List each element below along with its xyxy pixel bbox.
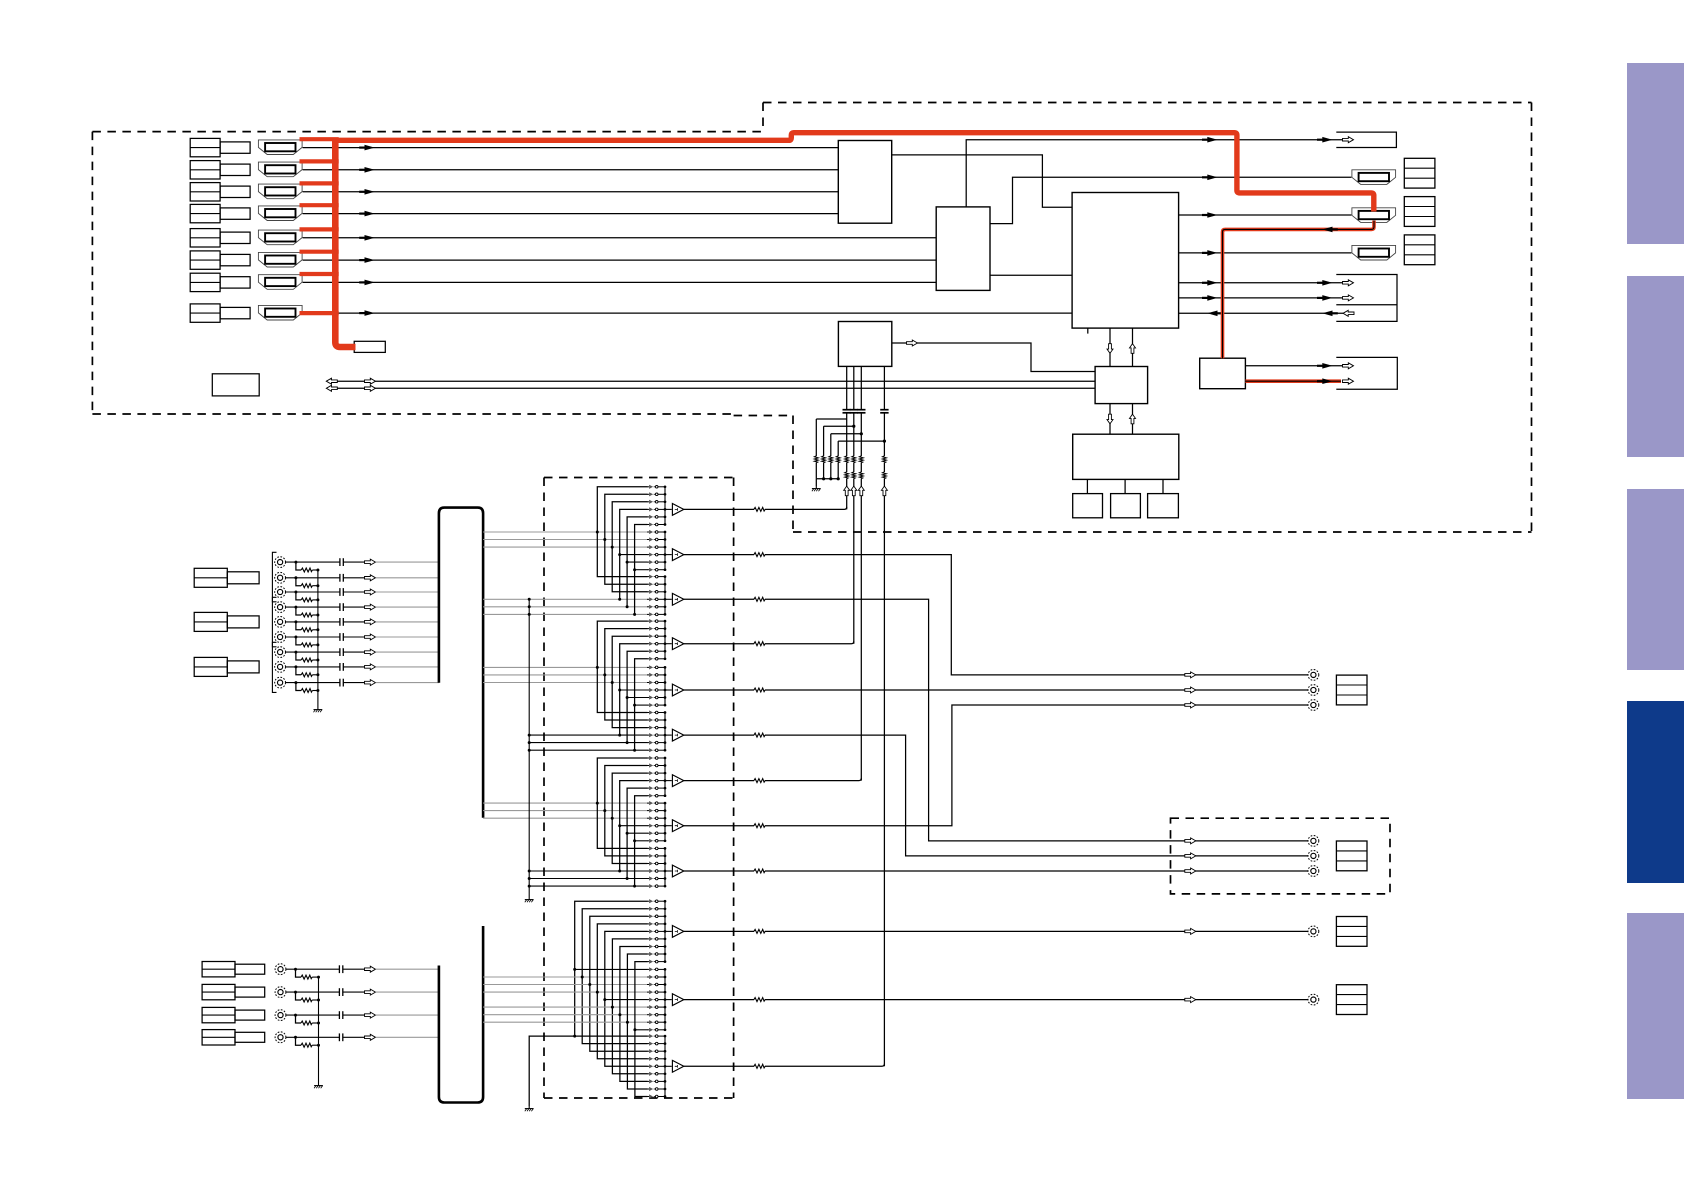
hollow arrow output ch10 [1185, 928, 1196, 934]
selector bottom ch1 bus to buffer [665, 930, 672, 932]
tap wire from pull network 2 [824, 425, 854, 427]
ground symbol for pull network [812, 486, 821, 491]
connector shell rect for HDMI input 5 [220, 232, 250, 243]
junction dot shield bus [528, 605, 531, 608]
wire capacitor to arrow B4 [343, 1036, 365, 1038]
memory block U8 [1111, 494, 1141, 518]
memory block U7 [1073, 494, 1103, 518]
RCA output jack O3 [1308, 700, 1319, 711]
selector contact group1 ch3 pos6 [647, 612, 665, 616]
selector contact group3 ch2 pos5 [647, 831, 665, 835]
junction dot group3 L6 [633, 885, 636, 888]
IC block U10 transmitter [1200, 358, 1246, 389]
selector contact bottom ch2 pos1 [647, 967, 665, 971]
selector contact bottom ch3 pos1 [647, 1034, 665, 1038]
junction dot ground bus A1 [316, 569, 319, 572]
output resistor ch2 [754, 552, 765, 557]
bidirectional control wire [331, 380, 1096, 382]
selector link wire bottom col8 [627, 954, 647, 1089]
junction dot at RCA B3 [294, 1014, 297, 1017]
gray analog lead A6 into cable [376, 636, 439, 638]
tap wire from pull network 1 [816, 418, 846, 420]
wire shunt resistor to ground bus A4 [312, 614, 318, 616]
hollow arrow on analog input A3 [365, 589, 376, 595]
HDMI input connector J5 [258, 230, 302, 245]
junction dot shield bus [528, 613, 531, 616]
selector contact bottom ch3 pos2 [647, 1042, 665, 1046]
group bracket for analog inputs 3 [272, 642, 276, 692]
selector contact group1 ch1 pos2 [647, 492, 665, 496]
buffer output wire ch4 to DAC return [684, 641, 854, 644]
selector group2 ch1 bus to buffer [665, 643, 672, 645]
output resistor ch3 [754, 597, 765, 602]
RCA input jack A8 [275, 662, 286, 673]
series resistor R3a [859, 456, 864, 463]
selector contact group2 ch2 pos5 [647, 695, 665, 699]
selector contact group3 ch1 pos5 [647, 786, 665, 790]
buffer amp bottom ch1 [672, 926, 683, 938]
junction dot bottom L2 [581, 976, 584, 979]
shunt resistor RA8 [301, 672, 312, 677]
junction dot group1 L1 [596, 531, 599, 534]
wire U3 to HDMI out 2 [1179, 214, 1352, 216]
selector group3 ch1 bus to buffer [665, 780, 672, 782]
connector shell rect for HDMI input 1 [220, 142, 250, 153]
coupling capacitor CA9 [340, 679, 343, 687]
output resistor ch5 [754, 687, 765, 692]
selector group3 ch3 output bus [664, 848, 666, 886]
hollow arrow output ch3 [1185, 838, 1196, 844]
junction dot ground bus A2 [316, 584, 319, 587]
shunt resistor RA5 [301, 627, 312, 632]
selector contact bottom ch2 pos2 [647, 975, 665, 979]
selector contact bottom ch1 pos3 [647, 914, 665, 918]
selector contact group3 ch1 pos4 [647, 779, 665, 783]
selector bottom ch3 output bus [664, 1036, 666, 1096]
selector contact group1 ch3 pos1 [647, 575, 665, 579]
junction dot ground bus B3 [317, 1022, 320, 1025]
selector contact group3 ch1 pos2 [647, 763, 665, 767]
wire shunt resistor to ground bus A3 [312, 599, 318, 601]
junction dot link group2 col5 [626, 696, 629, 699]
wire U3 to control connector line 2 [1179, 297, 1343, 299]
arrow on HDMI input wire 5 [359, 235, 375, 241]
analog bus line group2 L6 [529, 749, 647, 751]
HDMI output connector OUT2 [1352, 208, 1396, 223]
selector link stub bottom row9 [635, 1029, 648, 1031]
buffer amp group1 ch3 [672, 593, 683, 605]
arrow on HDMI input wire 2 [359, 167, 375, 173]
selector contact group1 ch1 pos1 [647, 485, 665, 489]
dashed enclosure: HDMI input board bottom edge [92, 413, 733, 415]
pull resistor chain 1 vertical [815, 419, 817, 479]
analog bus line group2 L1 (gray) [483, 666, 647, 668]
selector group1 ch2 bus to buffer [665, 554, 672, 556]
connector pin-stack for HDMI input 1 [190, 138, 220, 156]
bus U3 to U5 down line [1109, 328, 1111, 366]
coupling capacitor CA4 [340, 603, 343, 611]
audio line 2 continues [853, 413, 855, 644]
selector contact bottom ch1 pos6 [647, 937, 665, 941]
RCA input jack B1 [275, 964, 286, 975]
buffer amp group1 ch2 [672, 549, 683, 561]
up arrow on audio line 1 [844, 486, 850, 496]
junction dot bottom L8 [626, 1021, 629, 1024]
selector contact bottom ch2 pos7 [647, 1013, 665, 1017]
pull resistor chain 3 vertical [830, 434, 832, 479]
buffer output wire ch3 to output jack [684, 599, 1308, 841]
connector frame CN system [1336, 357, 1397, 389]
junction dot link group1 col4 [618, 553, 621, 556]
pin stack for subwoofer out 1 [1336, 917, 1367, 947]
output resistor ch6 [754, 733, 765, 738]
coupling capacitor C3 [857, 410, 865, 413]
wire RCA A8 to coupling [286, 666, 340, 668]
junction dot group2 L4 [618, 734, 621, 737]
wire capacitor to arrow A9 [343, 682, 364, 684]
RCA input jack A4 [275, 602, 286, 613]
selector contact group2 ch3 pos3 [647, 726, 665, 730]
wire capacitor to arrow A4 [343, 606, 364, 608]
selector contact group3 ch3 pos4 [647, 869, 665, 873]
down arrow U3-U5 [1107, 344, 1113, 354]
buffer amp bottom ch2 [672, 994, 683, 1006]
shield bus vertical (upper) [528, 599, 530, 897]
selector contact group1 ch2 pos5 [647, 560, 665, 564]
analog bus line group2 L3 (gray) [483, 682, 647, 684]
RCA input jack A1 [275, 557, 286, 568]
analog bus line group2 L2 (gray) [483, 674, 647, 676]
selector contact group3 ch1 pos1 [647, 756, 665, 760]
selector contact group3 ch2 pos3 [647, 816, 665, 820]
analog bus line bottom L7 (gray) [483, 1014, 647, 1016]
IC block U5 DSP [1095, 367, 1148, 404]
selector link wire group1 col1 [597, 487, 647, 577]
selector contact group3 ch3 pos1 [647, 846, 665, 850]
RCA input jack A2 [275, 572, 286, 583]
black core of thin red return cable [1223, 221, 1375, 359]
wire U6 to memory U7 [1086, 479, 1088, 493]
connector pin-stack for HDMI input 4 [190, 204, 220, 222]
group bracket for analog inputs 1 [272, 552, 276, 602]
analog bus line group3 L2 (gray) [483, 810, 647, 812]
selector bottom ch3 bus to buffer [665, 1065, 672, 1067]
pull resistor chain 4 vertical [837, 441, 839, 479]
shunt branch of RCA B3 [296, 1015, 302, 1023]
selector group2 ch3 bus to buffer [665, 734, 672, 736]
wire U2 top to ARC output [966, 140, 1343, 207]
dashed enclosure: main digital board left edge [762, 103, 764, 132]
junction dot group3 L4 [618, 870, 621, 873]
junction dot bottom L6 [611, 1006, 614, 1009]
selector contact group3 ch3 pos5 [647, 876, 665, 880]
junction dot on shield bus for group2 L6 [528, 749, 531, 752]
junction dot ground bus A5 [316, 628, 319, 631]
selector contact bottom ch1 pos4 [647, 922, 665, 926]
selector contact group3 ch1 pos6 [647, 794, 665, 798]
black core of red U10 cable [1245, 380, 1341, 382]
selector link stub bottom row1 [575, 968, 648, 970]
connector pin-stack for HDMI input 6 [190, 251, 220, 269]
hollow arrow output ch8 [1185, 702, 1196, 708]
dashed enclosure: main digital board right edge [1531, 103, 1533, 533]
shunt branch of RCA A9 [296, 683, 301, 691]
junction dot group2 L3 [611, 681, 614, 684]
wire shunt resistor to ground bus A6 [312, 644, 318, 646]
arrow on thin red return cable [1322, 227, 1338, 233]
stub pin below U3 [1087, 328, 1089, 334]
wire RCA A2 to coupling [286, 577, 340, 579]
HDMI output connector OUT3 [1352, 245, 1396, 260]
analog bus line bottom L4 (gray) [483, 991, 647, 993]
connector shell rect for HDMI input 3 [220, 186, 250, 197]
selector link stub bottom row5 [605, 999, 648, 1001]
selector contact group1 ch2 pos6 [647, 568, 665, 572]
series resistor R2a [851, 456, 856, 463]
wire capacitor to arrow B1 [343, 968, 365, 970]
selector link stub group3 col6 [635, 840, 648, 842]
selector contact group1 ch1 pos4 [647, 507, 665, 511]
wire shunt resistor to ground bus B3 [312, 1022, 318, 1024]
junction dot shield bus [528, 598, 531, 601]
dashed enclosure: HDMI input board (top-left) top edge [92, 131, 763, 133]
junction dot group3 L1 [596, 802, 599, 805]
junction dot on shield bus for group2 L5 [528, 741, 531, 744]
buffer output wire ch2 to output jack [684, 555, 1308, 675]
ground symbol shield bus upper [525, 897, 534, 902]
connector pin-stack for HDMI input 5 [190, 229, 220, 247]
junction dot at RCA A1 [294, 561, 297, 564]
connector shell rect for HDMI input 8 [220, 307, 250, 318]
audio line 4 continues [883, 413, 885, 1067]
hollow arrow on analog input A4 [365, 604, 376, 610]
pin stack for HDMI out 1 [1404, 158, 1435, 188]
red stub wire from HDMI input 5 [300, 227, 339, 231]
junction dot link group1 col6 [633, 568, 636, 571]
arrow on ARC wire near connector [1317, 137, 1333, 143]
shunt resistor RB2 [301, 997, 312, 1002]
junction dot group2 L2 [603, 673, 606, 676]
selector contact bottom ch1 pos5 [647, 929, 665, 933]
navigation tab 5 [1627, 913, 1684, 1099]
selector contact group2 ch1 pos6 [647, 657, 665, 661]
selector contact group3 ch2 pos4 [647, 824, 665, 828]
wire capacitor to arrow A5 [343, 621, 364, 623]
hollow arrow on ARC wire at connector [1343, 137, 1354, 143]
selector contact group2 ch2 pos4 [647, 688, 665, 692]
RCA input jack A3 [275, 587, 286, 598]
red stub wire from HDMI input 2 [300, 159, 339, 163]
buffer amp group2 ch1 [672, 638, 683, 650]
junction dot ground bus B2 [317, 999, 320, 1002]
RCA input jack B2 [275, 987, 286, 998]
navigation tab 1 [1627, 63, 1684, 244]
buffer output wire ch1 to DAC return [684, 507, 847, 510]
wire HDMI input 7 to digital block [303, 281, 937, 283]
HDMI input connector J6 [258, 252, 302, 267]
selector contact bottom ch1 pos2 [647, 907, 665, 911]
junction dot on audio line 3 [860, 432, 863, 435]
buffer output wire ch8 to output jack [684, 705, 1308, 826]
coupling capacitor CB1 [339, 965, 342, 973]
red HDMI video bus trunk wire [332, 133, 1374, 212]
hollow arrow on analog input A1 [365, 559, 376, 565]
selector contact bottom ch1 pos7 [647, 944, 665, 948]
bus U5 to U6 down line [1109, 404, 1111, 435]
wire capacitor to arrow A2 [343, 577, 364, 579]
selector link wire group2 col6 [635, 659, 648, 750]
shield bus link (lower) [529, 1036, 575, 1106]
dashed enclosure: input selector board bottom edge [544, 1097, 734, 1099]
wire RCA A3 to coupling [286, 591, 340, 593]
shunt branch of RCA A2 [296, 578, 301, 586]
buffer output wire ch7 to DAC return [684, 778, 862, 781]
rear panel pin-stack analog B4 [202, 1030, 235, 1045]
selector contact bottom ch1 pos9 [647, 960, 665, 964]
red stub wire from HDMI input 3 [300, 181, 339, 185]
selector contact group1 ch3 pos3 [647, 590, 665, 594]
dashed enclosure: input selector board left edge [543, 478, 545, 1099]
junction dot at RCA A4 [294, 606, 297, 609]
analog bus line group3 L4 [529, 870, 647, 872]
analog input ground bus (lower) [318, 977, 320, 1083]
pull resistor R8 [836, 456, 841, 463]
coupling capacitor C4 [880, 410, 888, 413]
wire HDMI input 2 to digital block [303, 169, 839, 171]
series resistor R3b [859, 472, 864, 479]
connector shell rect for HDMI input 4 [220, 208, 250, 219]
rear panel pin-stack analog group 3 [194, 657, 227, 676]
selector contact group1 ch1 pos6 [647, 522, 665, 526]
junction dot bottom L3 [588, 983, 591, 986]
selector link wire group2 col4 [620, 644, 648, 735]
selector contact group2 ch3 pos5 [647, 741, 665, 745]
selector contact group3 ch2 pos6 [647, 839, 665, 843]
gray analog lead A7 into cable [376, 651, 439, 653]
analog bus line bottom L6 (gray) [483, 1006, 647, 1008]
navigation tab 2 [1627, 276, 1684, 457]
hollow arrow on analog input B4 [365, 1034, 376, 1040]
hollow arrow on analog input B1 [365, 966, 376, 972]
navigation tab 4 [1627, 701, 1684, 883]
selector contact bottom ch3 pos6 [647, 1072, 665, 1076]
analog bus line group2 L4 [529, 734, 647, 736]
selector contact bottom ch3 pos5 [647, 1064, 665, 1068]
pin stack for HDMI out 2 [1404, 197, 1435, 227]
RCA output jack O1 [1308, 670, 1319, 681]
selector contact group1 ch2 pos2 [647, 537, 665, 541]
gray analog lead A3 into cable [376, 591, 439, 593]
dashed enclosure: main digital board (top-right) top edge [763, 102, 1532, 104]
coupling capacitor CA7 [340, 648, 343, 656]
arrow on HDMI out 2 wire [1202, 212, 1218, 218]
hollow arrow output ch2 [1185, 672, 1196, 678]
buffer amp bottom ch3 [672, 1060, 683, 1072]
junction dot at RCA A7 [294, 651, 297, 654]
selector contact group2 ch2 pos1 [647, 665, 665, 669]
junction dot at RCA A5 [294, 620, 297, 623]
shunt branch of RCA A6 [296, 637, 301, 645]
wire shunt resistor to ground bus B1 [312, 976, 318, 978]
output resistor ch7 [754, 778, 765, 783]
wire RCA B1 to coupling [286, 968, 340, 970]
connector pin-stack for HDMI input 8 [190, 304, 220, 322]
arrow on ARC wire [1202, 137, 1218, 143]
analog input ground bus (upper) [317, 570, 319, 707]
pull resistor R7 [828, 456, 833, 463]
connector frame CN control [1336, 275, 1397, 322]
bus U5 to U3 up line [1132, 328, 1134, 366]
selector group2 ch2 output bus [664, 667, 666, 705]
selector link wire bottom col7 [620, 947, 648, 1082]
selector group2 ch3 output bus [664, 713, 666, 751]
red stub wire from HDMI input 8 [300, 311, 339, 315]
selector group3 ch2 output bus [664, 803, 666, 841]
coupling capacitor CA6 [340, 633, 343, 641]
gray analog lead A4 into cable [376, 606, 439, 608]
wire U4 to U5 [892, 343, 1095, 372]
buffer output wire ch9 to output jack [684, 870, 1308, 872]
hollow arrow on analog input A8 [365, 664, 376, 670]
selector link wire group3 col6 [635, 796, 648, 886]
red stub wire from HDMI input 1 [300, 137, 339, 141]
series resistor R4b [882, 472, 887, 479]
selector group1 ch1 output bus [664, 487, 666, 525]
RCA input jack B4 [275, 1032, 286, 1043]
IC block U6 system micro [1073, 434, 1179, 479]
dashed enclosure: HDMI input board left edge [91, 132, 93, 414]
gray analog lead B3 into cable [376, 1014, 439, 1016]
HDMI input connector J1 [258, 140, 302, 155]
RCA output jack O4 [1308, 836, 1319, 847]
selector contact bottom ch3 pos8 [647, 1087, 665, 1091]
buffer output wire ch6 to output jack [684, 735, 1308, 856]
RCA input jack A7 [275, 647, 286, 658]
hollow arrow output ch5 [1185, 687, 1196, 693]
shunt resistor RB3 [301, 1020, 312, 1025]
selector group1 ch3 output bus [664, 577, 666, 615]
selector contact group2 ch1 pos2 [647, 627, 665, 631]
wire shunt resistor to ground bus B2 [312, 999, 318, 1001]
coupling capacitor C2 [850, 410, 858, 413]
up arrow on audio line 3 [858, 486, 864, 496]
navigation tab 3 [1627, 489, 1684, 670]
rear panel shell analog group 2 [227, 616, 259, 628]
buffer amp group3 ch2 [672, 820, 683, 832]
selector bottom ch2 bus to buffer [665, 999, 672, 1001]
selector contact group1 ch1 pos5 [647, 515, 665, 519]
junction dot group3 L2 [603, 809, 606, 812]
group bracket for analog inputs 2 [272, 597, 276, 647]
wire HDMI input 6 to digital block [303, 259, 937, 261]
hollow arrow output ch9 [1185, 868, 1196, 874]
down arrow U5-U6 [1107, 414, 1113, 424]
selector link stub group3 col5 [627, 832, 647, 834]
shunt resistor RA3 [301, 597, 312, 602]
coupling capacitor CA1 [340, 558, 343, 566]
HDMI input connector J7 [258, 275, 302, 290]
rear panel shell analog B4 [235, 1032, 265, 1042]
junction dot link group3 col5 [626, 832, 629, 835]
thin red cable HDMI out 2 return to U10 [1223, 221, 1375, 359]
selector contact group3 ch1 pos3 [647, 771, 665, 775]
selector group2 ch1 output bus [664, 621, 666, 659]
shunt resistor RA9 [301, 688, 312, 693]
rear panel shell analog B1 [235, 964, 265, 974]
selector bottom ch2 output bus [664, 969, 666, 1029]
arrow on red U10 cable [1317, 378, 1333, 384]
selector group1 ch1 bus to buffer [665, 508, 672, 510]
